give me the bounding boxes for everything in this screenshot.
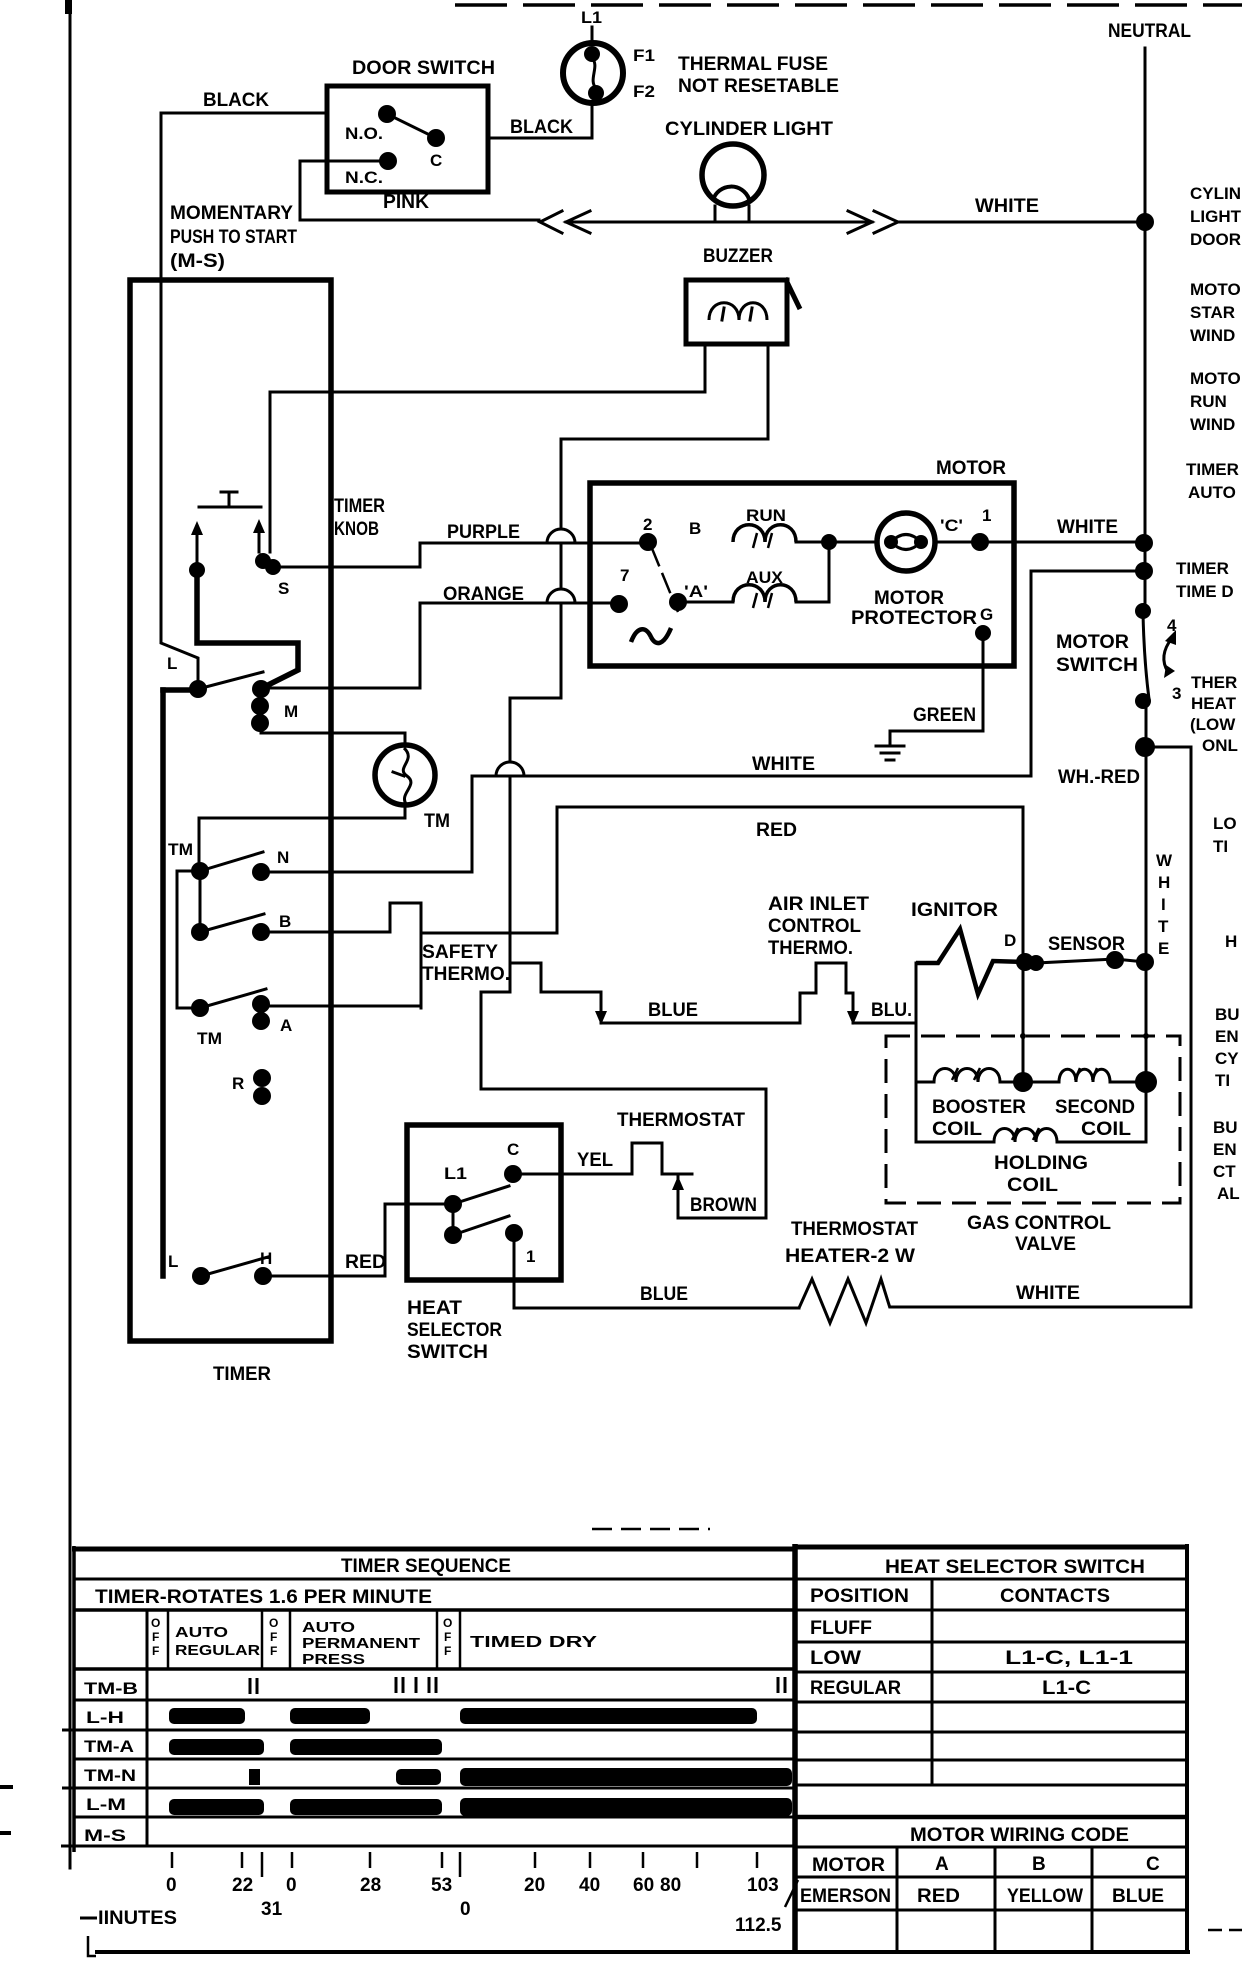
heat sel contact C — [504, 1165, 522, 1183]
svg-text:PURPLE: PURPLE — [447, 522, 520, 543]
svg-text:L: L — [168, 1252, 178, 1271]
svg-text:WHITE: WHITE — [752, 754, 815, 775]
label HOLDING COIL — [994, 1153, 1088, 1196]
svg-text:WHITE: WHITE — [975, 196, 1039, 217]
right edge dash — [1208, 1929, 1242, 1932]
svg-text:TM: TM — [424, 811, 450, 832]
svg-text:KNOB: KNOB — [334, 519, 379, 540]
heat sel contact 1 — [505, 1224, 523, 1242]
heat selector table lines — [795, 1579, 1187, 1785]
svg-text:S: S — [278, 579, 289, 598]
svg-text:G: G — [980, 605, 993, 624]
wire PINK from N.C. — [300, 161, 539, 220]
svg-text:RED: RED — [345, 1252, 386, 1273]
svg-text:L: L — [167, 654, 177, 673]
ground symbol — [876, 746, 904, 760]
OFF column 1 — [151, 1616, 160, 1658]
svg-text:SELECTOR: SELECTOR — [407, 1320, 502, 1341]
label G — [980, 605, 993, 624]
junction dot neutral/timer wire — [1135, 562, 1153, 580]
svg-text:TIMER: TIMER — [213, 1364, 271, 1385]
contact A lever node — [191, 999, 209, 1017]
svg-text:L1: L1 — [444, 1164, 467, 1183]
svg-text:PINK: PINK — [383, 192, 429, 213]
svg-text:IGNITOR: IGNITOR — [911, 900, 998, 921]
svg-text:TM-B: TM-B — [84, 1679, 138, 1698]
svg-text:HEAT: HEAT — [407, 1298, 462, 1319]
sensor link — [1036, 959, 1145, 963]
svg-text:TIME D: TIME D — [1176, 582, 1234, 601]
svg-text:AUTO: AUTO — [302, 1619, 355, 1636]
svg-text:AL: AL — [1217, 1184, 1240, 1203]
svg-text:103: 103 — [747, 1875, 779, 1896]
lever TM-N — [200, 852, 263, 871]
svg-text:31: 31 — [261, 1899, 283, 1920]
label D — [1004, 931, 1016, 950]
svg-text:(M-S): (M-S) — [170, 251, 225, 272]
wire BROWN to loop — [678, 1217, 766, 1220]
label REGULAR row — [810, 1678, 1091, 1699]
motor code header row — [795, 1854, 1187, 1877]
header cell dividers — [168, 1610, 460, 1669]
svg-text:F: F — [152, 1644, 159, 1658]
label L1 — [581, 8, 602, 27]
svg-text:TIMER SEQUENCE: TIMER SEQUENCE — [341, 1556, 511, 1577]
svg-text:MOTO: MOTO — [1190, 369, 1241, 388]
svg-text:FLUFF: FLUFF — [810, 1618, 872, 1639]
wire BLUE safety to air inlet — [601, 963, 859, 1025]
wire N to white run — [261, 776, 472, 872]
svg-text:CYLINDER LIGHT: CYLINDER LIGHT — [665, 119, 833, 140]
svg-text:C: C — [507, 1140, 519, 1159]
label M — [284, 702, 298, 721]
svg-text:PRESS: PRESS — [302, 1651, 365, 1668]
svg-text:O: O — [269, 1616, 278, 1630]
motor wiring code header — [795, 1817, 1187, 1847]
label TM (lower) — [197, 1029, 222, 1048]
label PUSH TO START — [170, 227, 297, 248]
motor protector — [877, 513, 935, 571]
svg-text:TM: TM — [168, 840, 193, 859]
vertical WHITE letters — [1156, 851, 1173, 958]
svg-text:GREEN: GREEN — [913, 705, 976, 726]
svg-text:MOMENTARY: MOMENTARY — [170, 203, 293, 224]
tie TM to B lever — [199, 871, 202, 932]
svg-text:M: M — [284, 702, 298, 721]
svg-text:'A': 'A' — [684, 582, 708, 601]
terminal G — [975, 625, 991, 641]
label TIMED DRY — [470, 1634, 597, 1651]
svg-text:TM: TM — [197, 1029, 222, 1048]
label TIMER-ROTATES 1.6 PER MINUTE — [95, 1587, 432, 1608]
label TIMER KNOB — [334, 496, 385, 540]
svg-text:O: O — [151, 1616, 160, 1630]
svg-text:WH.-RED: WH.-RED — [1058, 767, 1140, 788]
label AUX — [746, 568, 784, 587]
timer motor TM — [375, 745, 435, 805]
svg-text:YELLOW: YELLOW — [1007, 1886, 1083, 1907]
svg-text:E: E — [1158, 939, 1169, 958]
label RED — [756, 820, 797, 841]
svg-text:M-S: M-S — [84, 1826, 126, 1845]
label POSITION / CONTACTS — [810, 1586, 1110, 1607]
wire L to left rail — [163, 687, 198, 693]
svg-text:TI: TI — [1215, 1071, 1230, 1090]
thermal fuse F1-F2 — [563, 43, 623, 103]
wire WHITE heater to riser — [890, 1306, 1191, 1309]
svg-text:VALVE: VALVE — [1015, 1234, 1076, 1255]
wire L1 stub to thermal fuse — [591, 27, 594, 44]
row label TM-N — [84, 1766, 136, 1785]
svg-text:A: A — [280, 1016, 292, 1035]
svg-text:A: A — [935, 1854, 949, 1875]
label F2 — [633, 82, 655, 101]
label L1 (heat sel) — [444, 1164, 467, 1183]
label ORANGE — [443, 584, 524, 605]
label 'A' — [684, 582, 708, 601]
svg-text:TIMER: TIMER — [334, 496, 385, 517]
label 7 — [620, 566, 629, 585]
svg-text:F1: F1 — [633, 46, 655, 65]
svg-text:EN: EN — [1213, 1140, 1237, 1159]
wire RED across top — [557, 806, 1023, 809]
svg-text:MOTOR WIRING CODE: MOTOR WIRING CODE — [910, 1825, 1129, 1846]
label GREEN — [913, 705, 976, 726]
svg-text:L-H: L-H — [86, 1708, 124, 1727]
minutes numbers row2 — [261, 1899, 782, 1936]
wire B to red node — [261, 903, 421, 1008]
heat sel lower node — [444, 1226, 462, 1244]
label FLUFF — [810, 1618, 872, 1639]
wire wh-red branch right — [1146, 747, 1191, 1307]
svg-text:COIL: COIL — [932, 1119, 982, 1140]
svg-text:AUTO: AUTO — [1188, 483, 1236, 502]
motor box — [590, 483, 1014, 666]
L-H bars — [169, 1708, 757, 1724]
svg-text:BOOSTER: BOOSTER — [932, 1097, 1026, 1118]
TM-A bars — [169, 1739, 442, 1755]
wire G to ground — [890, 633, 983, 744]
contact B lever node — [191, 923, 209, 941]
svg-text:TIMER: TIMER — [1176, 559, 1229, 578]
wire fuse bottom to door switch C — [488, 103, 592, 138]
node D dots — [1016, 953, 1044, 971]
label HEAT SELECTOR SWITCH (table) — [885, 1557, 1145, 1578]
door switch contact C — [427, 129, 445, 147]
svg-text:THERMO.: THERMO. — [768, 938, 853, 959]
svg-text:2: 2 — [643, 515, 652, 534]
label MINUTES — [80, 1908, 177, 1929]
wire RED riser to ignitor node D — [1022, 807, 1025, 1082]
mid dashed divider — [592, 1528, 710, 1531]
wire S to purple riser — [276, 543, 420, 567]
RUN winding — [733, 525, 796, 548]
row label L-H — [86, 1708, 124, 1727]
label F1 — [633, 46, 655, 65]
wire M to timer motor TM — [261, 723, 405, 746]
corner L mark — [88, 1936, 96, 1956]
thick actuator path cam to M — [197, 570, 298, 687]
label BLUE (bottom) — [640, 1284, 688, 1305]
svg-text:POSITION: POSITION — [810, 1586, 909, 1607]
lever L-H — [201, 1257, 268, 1276]
svg-text:TIMER: TIMER — [1186, 460, 1239, 479]
svg-text:BLACK: BLACK — [203, 90, 269, 111]
label 2 — [643, 515, 652, 534]
label BROWN — [690, 1195, 757, 1216]
svg-text:SWITCH: SWITCH — [1056, 655, 1138, 676]
wire aux to run junction — [687, 550, 829, 602]
gas control valve dashed box — [886, 1033, 1180, 1203]
label R — [232, 1074, 244, 1093]
label L (bottom) — [168, 1252, 178, 1271]
buzzer — [686, 278, 800, 344]
wire buzzer left lead to timer S — [270, 344, 705, 552]
svg-text:WIND: WIND — [1190, 326, 1235, 345]
svg-text:53: 53 — [431, 1875, 452, 1896]
svg-text:B: B — [689, 519, 701, 538]
svg-text:THERMOSTAT: THERMOSTAT — [791, 1219, 918, 1240]
svg-text:60: 60 — [633, 1875, 654, 1896]
label 4 — [1167, 616, 1177, 635]
label TM (motor) — [424, 811, 450, 832]
svg-text:NEUTRAL: NEUTRAL — [1108, 21, 1191, 42]
junction dot neutral/light — [1136, 213, 1154, 231]
svg-text:EMERSON: EMERSON — [800, 1886, 891, 1907]
svg-text:BLU.: BLU. — [871, 1000, 912, 1021]
svg-text:SWITCH: SWITCH — [407, 1342, 488, 1363]
svg-text:T: T — [1158, 917, 1169, 936]
contact TM node — [191, 862, 209, 880]
svg-text:MOTOR: MOTOR — [874, 588, 944, 609]
page left border — [65, 0, 72, 1868]
timer sequence table frame — [72, 1546, 795, 1852]
junction dot neutral/motor white — [1135, 534, 1153, 552]
svg-text:REGULAR: REGULAR — [810, 1678, 901, 1699]
svg-text:BUZZER: BUZZER — [703, 246, 773, 267]
TM-N bars — [249, 1768, 792, 1786]
svg-text:L1-C: L1-C — [1042, 1678, 1091, 1699]
wing symbol — [631, 628, 671, 643]
svg-text:THER: THER — [1191, 673, 1237, 692]
label NOT RESETABLE — [678, 76, 839, 97]
safety thermo left lead — [481, 992, 766, 1218]
safety thermostat — [481, 963, 607, 1025]
SECOND COIL winding — [1023, 1068, 1146, 1082]
svg-text:CONTACTS: CONTACTS — [1000, 1586, 1110, 1607]
label BOOSTER COIL — [932, 1097, 1026, 1140]
svg-text:SAFETY: SAFETY — [422, 942, 498, 963]
label IGNITOR — [911, 900, 998, 921]
wire BLUE from contact 1 — [514, 1233, 799, 1308]
svg-text:22: 22 — [232, 1875, 253, 1896]
svg-text:F: F — [444, 1630, 451, 1644]
svg-text:WIND: WIND — [1190, 415, 1235, 434]
svg-text:H: H — [1225, 932, 1237, 951]
label TM (upper contact) — [168, 840, 193, 859]
svg-text:THERMO.: THERMO. — [422, 964, 510, 985]
svg-text:BU: BU — [1213, 1118, 1238, 1137]
label S — [278, 579, 289, 598]
label B (motor) — [689, 519, 701, 538]
contact A dots — [252, 995, 270, 1030]
label MOTOR SWITCH — [1056, 632, 1138, 676]
svg-text:GAS CONTROL: GAS CONTROL — [967, 1213, 1111, 1234]
svg-text:BROWN: BROWN — [690, 1195, 757, 1216]
svg-text:F: F — [444, 1644, 451, 1658]
svg-text:DOOR SWITCH: DOOR SWITCH — [352, 58, 495, 79]
svg-text:28: 28 — [360, 1875, 381, 1896]
bottom border line — [95, 1950, 1190, 1954]
motor lever 2-A (dashed) — [651, 546, 678, 612]
label NEUTRAL — [1108, 21, 1191, 42]
junction dot wh-red — [1135, 737, 1155, 757]
table row lines — [61, 1579, 795, 1846]
motor switch contact 3 — [1135, 693, 1151, 709]
lever L-M — [198, 672, 263, 689]
contact B dot — [252, 923, 270, 941]
label CYLINDER LIGHT — [665, 119, 833, 140]
label column divider — [146, 1610, 149, 1846]
minutes numbers row1 — [166, 1875, 779, 1896]
thermostat drop with arrow — [672, 1174, 684, 1218]
label BUZZER — [703, 246, 773, 267]
svg-text:COIL: COIL — [1081, 1119, 1131, 1140]
right margin labels — [1190, 184, 1241, 203]
label THERMAL FUSE — [678, 54, 828, 75]
neutral rail — [1144, 48, 1147, 611]
svg-text:BLACK: BLACK — [510, 117, 573, 138]
svg-text:CYLIN: CYLIN — [1190, 184, 1241, 203]
label DOOR SWITCH — [352, 58, 495, 79]
OFF column 3 — [443, 1616, 452, 1658]
svg-text:YEL: YEL — [577, 1150, 613, 1171]
svg-text:N.C.: N.C. — [345, 168, 383, 187]
label GAS CONTROL VALVE — [967, 1213, 1111, 1255]
ignitor element — [916, 929, 1023, 994]
contact M dots — [251, 680, 270, 732]
svg-text:BU: BU — [1215, 1005, 1240, 1024]
label LOW row — [810, 1648, 1134, 1669]
svg-text:H: H — [260, 1249, 272, 1268]
svg-text:F: F — [270, 1630, 277, 1644]
svg-text:0: 0 — [166, 1875, 177, 1896]
door switch lever — [387, 114, 436, 138]
motor switch flash symbol — [1164, 630, 1176, 678]
motor wiring code columns — [897, 1847, 1092, 1950]
svg-text:BLUE: BLUE — [1112, 1886, 1164, 1907]
wire RED timer H to L1 — [263, 1204, 453, 1276]
cylinder light feed line with arrows — [540, 211, 898, 233]
svg-text:SECOND: SECOND — [1055, 1097, 1135, 1118]
left edge artifacts — [0, 1785, 13, 1835]
svg-text:TI: TI — [1213, 837, 1228, 856]
AUX winding — [733, 585, 796, 608]
svg-text:112.5: 112.5 — [735, 1915, 782, 1936]
row label M-S — [84, 1826, 126, 1845]
svg-text:40: 40 — [579, 1875, 600, 1896]
svg-text:STAR: STAR — [1190, 303, 1235, 322]
svg-text:MOTO: MOTO — [1190, 280, 1241, 299]
cylinder light bulb — [702, 144, 764, 222]
svg-text:PUSH TO START: PUSH TO START — [170, 227, 297, 248]
svg-text:1: 1 — [526, 1247, 535, 1266]
BOOSTER COIL winding — [916, 1068, 1023, 1082]
label N.O. — [345, 124, 383, 143]
label BLU. — [871, 1000, 912, 1021]
svg-text:PROTECTOR: PROTECTOR — [851, 608, 977, 629]
label 1 (heat sel) — [526, 1247, 535, 1266]
wire white riser to neutral — [1031, 571, 1145, 776]
svg-text:D: D — [1004, 931, 1016, 950]
svg-text:HOLDING: HOLDING — [994, 1153, 1088, 1174]
svg-text:F: F — [270, 1644, 277, 1658]
svg-text:AUTO: AUTO — [175, 1624, 228, 1641]
contact N dot — [252, 863, 270, 881]
svg-text:0: 0 — [286, 1875, 297, 1896]
svg-text:HEATER-2 W: HEATER-2 W — [785, 1246, 915, 1267]
label RED (bottom) — [345, 1252, 386, 1273]
wire BLU to ignitor leg — [853, 1022, 916, 1025]
label B — [279, 912, 291, 931]
svg-text:C: C — [430, 151, 442, 170]
svg-text:WHITE: WHITE — [1057, 517, 1118, 538]
svg-text:B: B — [279, 912, 291, 931]
svg-text:C: C — [1146, 1854, 1160, 1875]
svg-text:F2: F2 — [633, 82, 655, 101]
node at cam left — [189, 562, 205, 578]
row label L-M — [86, 1795, 126, 1814]
label WHITE (motor) — [1057, 517, 1118, 538]
motor terminal 1 — [971, 533, 989, 551]
label A — [280, 1016, 292, 1035]
svg-text:RUN: RUN — [1190, 392, 1227, 411]
contact H dot — [254, 1267, 272, 1285]
wire WHITE under motor — [472, 775, 1031, 778]
OFF column 2 — [269, 1616, 278, 1658]
svg-text:CONTROL: CONTROL — [768, 916, 861, 937]
svg-text:TM-N: TM-N — [84, 1766, 136, 1785]
svg-text:LIGHT: LIGHT — [1190, 207, 1242, 226]
lever B — [200, 914, 264, 932]
svg-text:NOT RESETABLE: NOT RESETABLE — [678, 76, 839, 97]
wire branch to RED riser — [421, 807, 557, 933]
svg-text:AIR INLET: AIR INLET — [768, 894, 869, 915]
label BLACK (right of door switch) — [510, 117, 573, 138]
heat sel tie — [452, 1204, 455, 1235]
svg-text:TIMED DRY: TIMED DRY — [470, 1634, 597, 1651]
svg-text:RUN: RUN — [746, 506, 786, 525]
heat sel lever upper — [453, 1186, 509, 1204]
label AUTO REGULAR — [175, 1624, 260, 1659]
timer box — [130, 280, 331, 1341]
wire PURPLE to motor terminal 2 — [420, 542, 648, 545]
junction dot second coil right — [1135, 1071, 1157, 1093]
door switch contact N.C. — [379, 152, 397, 170]
label (M-S) — [170, 251, 225, 272]
svg-text:RED: RED — [756, 820, 797, 841]
minutes scale ticks — [172, 1852, 757, 1877]
label HEAT SELECTOR SWITCH — [407, 1298, 502, 1363]
heat sel lever lower — [453, 1216, 509, 1235]
label 'C' — [940, 516, 963, 535]
svg-text:BLUE: BLUE — [648, 1000, 698, 1021]
wire BLACK from door switch to left drop — [161, 113, 327, 680]
label MOMENTARY — [170, 203, 293, 224]
lever A — [200, 989, 266, 1008]
wire TM motor to TM contact — [199, 805, 405, 862]
L-M bars — [169, 1798, 792, 1816]
